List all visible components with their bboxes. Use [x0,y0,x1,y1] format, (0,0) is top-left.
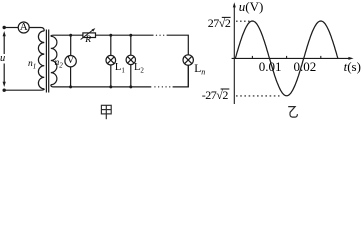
axis tick 0.025 [320,56,322,59]
label -27sqrt2 [202,88,228,103]
label V (voltmeter) [66,55,75,66]
wire voltmeter bottom lead [70,67,72,87]
radical vinculum -27sqrt2 [221,88,230,90]
wire voltmeter top lead [70,35,72,55]
voltmeter V [65,56,76,67]
node junction lamp L1 top [109,34,112,37]
dashed level line +27sqrt2 [236,20,250,22]
node junction voltmeter bottom [69,85,72,88]
label n2 [55,58,63,68]
wire lamp Ln leads [187,55,189,87]
ammeter A [18,22,29,33]
radical vinculum 27sqrt2 [222,16,231,18]
wire primary coil to bottom-left [4,89,44,90]
u(V) axis (vertical) [221,2,354,104]
node junction lamp L2 top [129,34,132,37]
node junction voltmeter top [69,34,72,37]
wire top right segment [167,35,189,55]
label t(s) axis [344,59,361,75]
wire secondary bottom lead [51,85,152,87]
transformer core [46,30,48,93]
label A (ammeter) [19,21,28,33]
wire lamp L1 leads [110,35,112,87]
wire top-left to ammeter [4,27,18,29]
lamp Ln [183,55,193,65]
wire ammeter to primary coil [29,28,44,31]
label 27sqrt2 [208,16,231,31]
sine curve u-t [235,21,338,96]
label Ln [194,63,205,75]
label L1 [115,62,125,73]
wire top dotted continuation [156,34,163,36]
wire secondary top lead [51,35,83,36]
transformer primary coil n1 [38,31,44,89]
terminal node bottom-left [2,89,5,92]
wire bottom dotted continuation [155,86,170,88]
axis tick 0.005 [251,56,253,59]
label u (input voltage) [0,53,5,64]
wire lamp L2 leads [130,35,132,87]
label yi (Chinese) [288,107,297,118]
node junction lamp L1 bottom [109,85,112,88]
label n1 [28,59,36,69]
label 0.02 [294,59,317,75]
wire bottom right segment [173,65,189,87]
t(s) axis (horizontal) [232,57,351,59]
label u(V) axis [239,0,264,15]
node junction lamp L2 bottom [129,85,132,88]
rheostat R body [83,33,96,38]
dashed level line -27sqrt2 [236,95,280,97]
label R [85,35,91,45]
rheostat R arrow [81,28,96,39]
lamp L1 [106,55,116,65]
voltage arrow u up [3,31,6,54]
lamp L2 [126,55,135,64]
label 0.01 [259,59,282,75]
terminal node top-left [2,26,5,29]
label L2 [134,62,144,73]
label jia (Chinese) [101,105,111,119]
voltage arrow u down [3,64,6,88]
wire rheostat to right corner [96,34,154,36]
transformer secondary coil n2 [51,36,57,84]
axis tick 0.015 [286,56,288,59]
